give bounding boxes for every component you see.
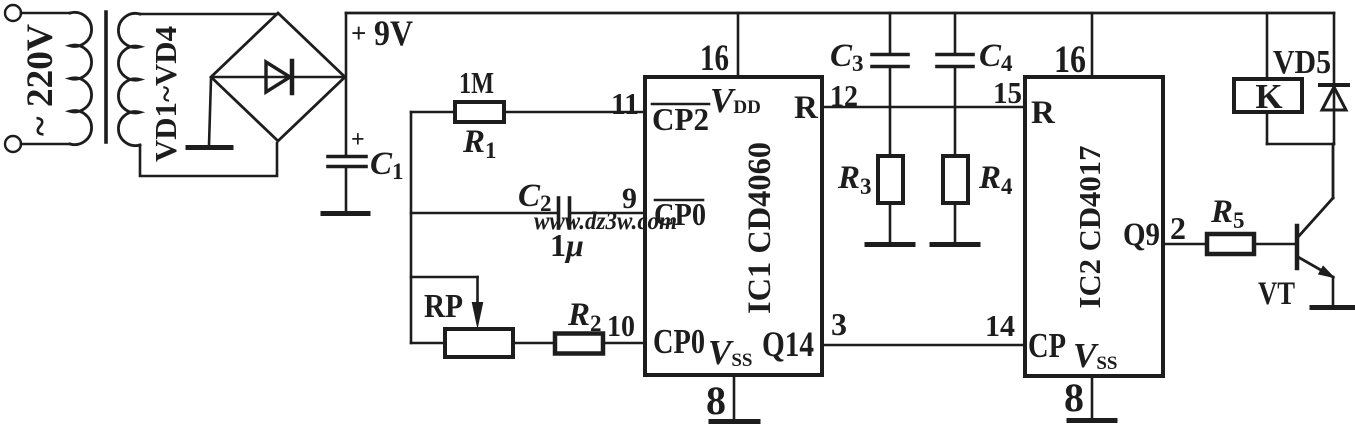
svg-text:VT: VT — [1258, 276, 1295, 312]
svg-text:Q9: Q9 — [1123, 217, 1160, 253]
svg-text:www.dz3w.com: www.dz3w.com — [534, 208, 677, 235]
svg-text:Q14: Q14 — [762, 324, 814, 364]
svg-text:10: 10 — [607, 308, 635, 343]
svg-text:C1: C1 — [370, 146, 404, 184]
svg-text:VDD: VDD — [710, 81, 761, 120]
svg-text:R3: R3 — [837, 160, 872, 199]
svg-text:R: R — [794, 90, 819, 126]
svg-text:12: 12 — [830, 78, 858, 113]
svg-text:CP2: CP2 — [652, 101, 709, 137]
svg-text:1M: 1M — [459, 65, 494, 100]
svg-text:R2: R2 — [567, 297, 602, 336]
svg-text:VD5: VD5 — [1273, 44, 1331, 81]
svg-text:CP0: CP0 — [653, 322, 705, 361]
svg-text:16: 16 — [1054, 38, 1086, 81]
svg-text:11: 11 — [611, 86, 639, 121]
svg-text:9V: 9V — [374, 13, 413, 53]
svg-text:K: K — [1255, 77, 1282, 116]
svg-text:R: R — [1031, 95, 1056, 131]
svg-text:+: + — [351, 127, 365, 153]
svg-text:CP: CP — [1028, 326, 1066, 365]
svg-text:2: 2 — [1170, 210, 1186, 246]
svg-text:VSS: VSS — [1073, 336, 1118, 375]
svg-text:16: 16 — [700, 38, 729, 79]
svg-text:R1: R1 — [462, 124, 497, 163]
svg-text:VSS: VSS — [708, 333, 753, 372]
svg-text:+: + — [351, 18, 366, 48]
svg-text:VD1~VD4: VD1~VD4 — [148, 26, 183, 162]
svg-text:C3: C3 — [830, 38, 864, 76]
svg-text:3: 3 — [831, 306, 847, 342]
svg-text:R4: R4 — [978, 160, 1013, 199]
svg-text:15: 15 — [993, 75, 1022, 110]
svg-text:~ 220V: ~ 220V — [20, 24, 61, 136]
svg-text:8: 8 — [1064, 375, 1084, 420]
svg-text:IC2 CD4017: IC2 CD4017 — [1072, 146, 1107, 309]
svg-text:8: 8 — [706, 378, 726, 423]
svg-text:C4: C4 — [979, 38, 1013, 76]
svg-text:14: 14 — [985, 308, 1015, 343]
svg-text:RP: RP — [424, 288, 463, 325]
svg-text:R5: R5 — [1210, 194, 1245, 233]
svg-text:IC1 CD4060: IC1 CD4060 — [742, 142, 778, 314]
